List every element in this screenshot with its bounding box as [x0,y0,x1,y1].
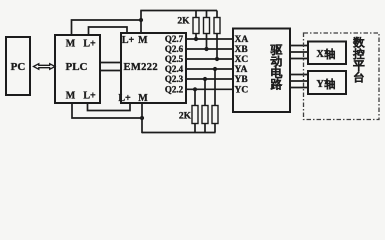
svg-text:Y: Y [316,79,324,90]
wire EM222 M bottom drop to rail [141,103,143,133]
wire signal Q2.7 to XA [186,38,233,40]
wire bottom rail [142,132,216,134]
svg-text:M: M [66,39,76,50]
resistor R6 2K (pull-down Q2.2) [192,89,198,132]
svg-text:M: M [66,91,76,102]
junction M-top [139,18,143,22]
wire L+ bus bottom (PLC L+ to EM222 L+) [88,103,131,111]
wire M bus bottom (PLC M to EM222 M) [72,103,142,118]
svg-text:Q2.2: Q2.2 [165,84,184,94]
svg-text:YB: YB [235,75,249,85]
wire L+ bus top (PLC L+ to EM222 L+) [89,27,128,35]
svg-text:L+: L+ [83,39,96,50]
terminal L+ (PLC bottom) [83,91,96,102]
svg-text:L+: L+ [122,35,135,46]
terminal L+ (EM222 bottom) [118,93,131,104]
junction M-bottom [140,116,144,120]
pin label Q2.7 [165,34,184,44]
svg-text:XB: XB [235,45,249,55]
resistor R5 2K (pull-down Q2.3) [202,79,208,133]
svg-text:Q2.6: Q2.6 [165,44,184,54]
resistor R4 2K (pull-down Q2.4) [212,69,218,133]
pin label Q2.2 [165,84,184,94]
wire top rail (+) [140,10,217,12]
pin label YA [235,65,248,75]
resistor R2 2K (pull-up Q2.6) [204,11,210,50]
label 平 [353,61,364,71]
box X-axis (X轴) [308,42,346,65]
wire PLC-EM222 upper [100,62,121,64]
wire signal Q2.5 to XC [186,58,233,60]
pin label XB [235,45,249,55]
wire EM222 M drop / riser to top rail [140,11,142,34]
bidirectional arrow PC-PLC [34,64,56,70]
svg-text:YA: YA [235,65,248,75]
pin label YC [235,86,249,96]
svg-text:Q2.5: Q2.5 [165,54,184,64]
svg-text:YC: YC [235,86,249,96]
terminal L+ (PLC top) [83,39,96,50]
wire signal Q2.3 to YB [186,78,233,80]
label 控 [353,48,364,59]
label 动 [271,56,282,67]
junction R3-Q2.5 [215,57,219,61]
value label 2K (bottom) [179,111,192,121]
label 路 [271,79,282,90]
junction R2-Q2.6 [204,47,208,51]
wire signal Q2.4 to YA [186,68,233,70]
wire X-phase 1 [290,45,308,47]
junction R5-Q2.3 [203,77,207,81]
box driver circuit (驱动电路) [233,29,290,113]
wire X-phase 2 [290,51,308,53]
svg-text:PC: PC [11,61,26,73]
svg-text:X: X [316,49,324,60]
pin label Q2.5 [165,54,184,64]
wire Y-phase 2 [290,80,308,82]
svg-text:M: M [138,93,148,104]
svg-text:2K: 2K [177,16,190,26]
pin label Q2.4 [165,64,184,74]
terminal M (PLC bottom) [66,91,76,102]
wire Y-phase 3 [290,87,308,89]
wire Y-phase 1 [290,74,308,76]
svg-text:M: M [138,35,148,46]
junction R6-Q2.2 [193,87,197,91]
pin label Q2.6 [165,44,184,54]
wire M bus top (PLC M to EM222 M) [72,20,142,35]
terminal M (EM222 bottom) [138,93,148,104]
junction R4-Q2.4 [213,67,217,71]
label 驱 [271,45,282,56]
wire signal Q2.2 to YC [186,88,233,90]
terminal M (PLC top) [66,39,76,50]
resistor R3 2K (pull-up Q2.5) [214,11,220,60]
svg-text:EM222: EM222 [124,62,158,73]
terminal M (EM222 top) [138,35,148,46]
wire signal Q2.6 to XB [186,48,233,50]
label 电 [271,67,282,78]
svg-text:XA: XA [235,35,249,45]
box PLC [55,35,100,103]
box Y-axis (Y轴) [308,71,346,94]
svg-text:XC: XC [235,55,249,65]
label 数 [353,37,364,48]
label 台 [354,72,363,83]
box CNC platform (数控平台, dashed) [304,33,380,120]
wire X-phase 3 [290,58,308,60]
svg-text:L+: L+ [83,91,96,102]
svg-text:PLC: PLC [66,61,88,73]
resistor R1 2K (pull-up Q2.7) [193,11,199,40]
pin label YB [235,75,249,85]
junction R1-Q2.7 [194,37,198,41]
svg-text:2K: 2K [179,111,192,121]
wire PLC-EM222 lower [100,70,121,72]
terminal L+ (EM222 top) [122,35,135,46]
svg-text:L+: L+ [118,93,131,104]
svg-text:Q2.4: Q2.4 [165,64,184,74]
value label 2K (top) [177,16,190,26]
pin label XA [235,35,249,45]
svg-text:Q2.7: Q2.7 [165,34,184,44]
svg-text:Q2.3: Q2.3 [165,74,184,84]
box PC [6,37,30,95]
pin label Q2.3 [165,74,184,84]
pin label XC [235,55,249,65]
box EM222 [121,33,186,103]
